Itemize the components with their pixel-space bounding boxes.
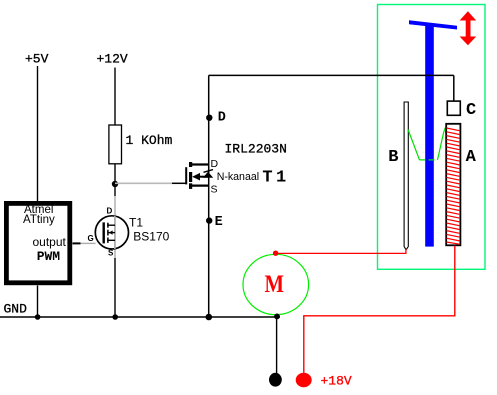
svg-text:+5V: +5V — [25, 52, 49, 67]
wire BS170 source to ground — [114, 258, 116, 317]
spring contact (green curve) — [408, 130, 420, 160]
green enclosure box — [378, 5, 486, 270]
svg-text:M: M — [265, 269, 285, 298]
svg-text:D: D — [211, 158, 219, 170]
resistor R1 1 KOhm — [109, 125, 122, 164]
contact C square — [447, 101, 460, 115]
junction IRL source/ground — [206, 314, 213, 321]
slider shaft blue bar — [425, 23, 434, 247]
svg-text:output: output — [33, 235, 67, 249]
wiper B (white bar) — [404, 102, 408, 250]
ground rail — [0, 316, 280, 318]
svg-text:G: G — [88, 234, 94, 243]
motor bottom node — [274, 314, 280, 320]
motor top node (red) — [273, 251, 278, 256]
svg-text:C: C — [466, 101, 476, 120]
wire junction to IRL gate (gray then black) — [115, 182, 172, 184]
wire IC output stub — [73, 242, 81, 244]
svg-text:S: S — [211, 184, 218, 196]
resistance track A (hatched) — [446, 124, 460, 246]
svg-text:GND: GND — [4, 302, 28, 317]
slider lever blue top bar — [409, 20, 457, 29]
svg-text:D: D — [218, 111, 226, 126]
junction node at gate divider — [112, 181, 118, 187]
svg-text:N-kanaal: N-kanaal — [217, 171, 259, 183]
red motion arrow — [460, 11, 477, 45]
svg-text:BS170: BS170 — [133, 229, 169, 243]
wire down to contact C — [453, 75, 455, 101]
svg-text:D: D — [107, 207, 113, 216]
svg-text:IRL2203N: IRL2203N — [225, 142, 287, 157]
junction BS170/ground — [112, 314, 118, 320]
transistor T1 IRL2203N symbol — [186, 162, 213, 189]
svg-text:B: B — [388, 148, 398, 167]
motor M circle — [243, 254, 309, 314]
wire IC to ground — [37, 286, 39, 318]
wire motor to wiper B (red) — [276, 249, 406, 253]
node D — [206, 115, 212, 121]
transistor Q1 BS170 — [95, 216, 128, 249]
svg-text:T1: T1 — [129, 216, 143, 230]
junction IC/ground — [35, 314, 41, 320]
wire motor negative lead — [276, 317, 278, 374]
svg-text:S: S — [108, 249, 114, 258]
main drain/source line of IRL2203N — [208, 75, 210, 317]
svg-text:A: A — [466, 148, 477, 167]
node E — [206, 217, 212, 223]
terminal red +18V — [296, 373, 312, 388]
wire +5V vertical — [37, 66, 39, 201]
wire output to gate (gray) — [81, 242, 96, 244]
svg-text:+12V: +12V — [97, 52, 128, 67]
svg-text:PWM: PWM — [37, 249, 61, 264]
wire +18V to track A (red) — [304, 246, 455, 373]
IC U1 Atmel ATtiny box — [6, 203, 69, 282]
wire top rail to actuator — [209, 74, 454, 76]
svg-text:+18V: +18V — [321, 374, 352, 389]
wire resistor to junction — [114, 164, 116, 197]
svg-text:T1: T1 — [262, 169, 289, 188]
terminal black — [269, 373, 282, 387]
wire +12V vertical — [114, 68, 116, 126]
svg-text:E: E — [215, 215, 223, 230]
svg-text:ATtiny: ATtiny — [23, 214, 55, 226]
svg-text:1 KOhm: 1 KOhm — [126, 133, 173, 148]
wire junction to BS170 drain (gray) — [114, 196, 116, 258]
